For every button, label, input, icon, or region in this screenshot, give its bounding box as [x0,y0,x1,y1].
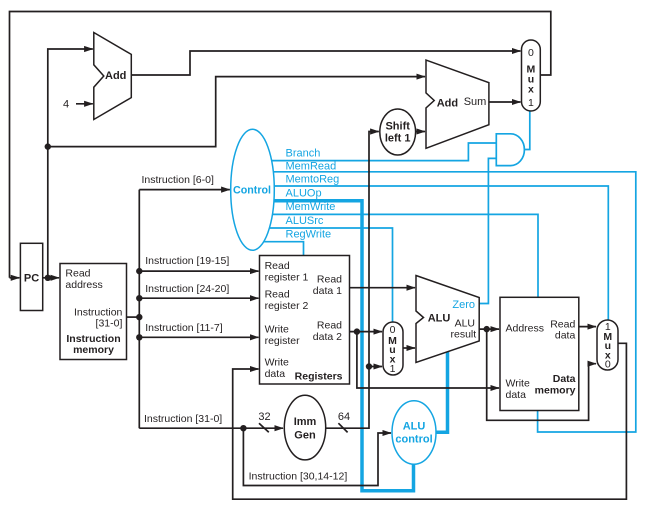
svg-text:Read: Read [317,274,342,286]
svg-text:Address: Address [506,322,545,334]
svg-text:x: x [528,84,534,96]
svg-text:register 2: register 2 [265,300,309,312]
svg-text:Read: Read [65,268,90,280]
svg-text:register: register [265,335,301,347]
svg-text:memory: memory [73,344,114,356]
svg-text:Shift: Shift [385,120,410,132]
svg-text:Add: Add [437,97,458,109]
svg-text:Imm: Imm [294,416,317,428]
svg-text:MemtoReg: MemtoReg [286,173,340,185]
svg-text:Control: Control [233,185,271,197]
svg-text:control: control [395,433,432,445]
svg-text:data: data [555,329,576,341]
svg-text:4: 4 [63,98,69,110]
svg-text:RegWrite: RegWrite [286,229,332,241]
svg-text:ALUSrc: ALUSrc [286,215,324,227]
svg-text:Write: Write [265,323,289,335]
svg-text:ALU: ALU [403,421,426,433]
svg-text:Instruction [11-7]: Instruction [11-7] [145,322,223,334]
svg-text:Gen: Gen [294,430,316,442]
svg-text:PC: PC [24,272,39,284]
svg-text:left 1: left 1 [385,133,411,145]
svg-text:0: 0 [605,359,611,371]
svg-text:data: data [506,389,527,401]
svg-text:Write: Write [506,378,530,390]
svg-text:Zero: Zero [452,299,475,311]
svg-text:Read: Read [265,289,290,301]
svg-text:Branch: Branch [286,147,321,159]
svg-text:MemRead: MemRead [286,160,337,172]
svg-text:data 1: data 1 [313,285,342,297]
svg-text:data: data [265,368,286,380]
svg-text:Instruction [30,14-12]: Instruction [30,14-12] [249,470,348,482]
svg-text:Sum: Sum [464,96,487,108]
svg-text:MemWrite: MemWrite [286,201,336,213]
svg-text:[31-0]: [31-0] [96,317,123,329]
svg-text:Registers: Registers [295,370,343,382]
svg-text:1: 1 [390,363,396,375]
svg-text:1: 1 [528,97,534,109]
svg-text:Instruction [6-0]: Instruction [6-0] [142,174,214,186]
svg-text:address: address [65,279,102,291]
svg-text:Write: Write [265,357,289,369]
svg-text:0: 0 [528,47,534,59]
svg-text:ALU: ALU [428,312,451,324]
svg-text:32: 32 [258,411,270,423]
svg-text:register 1: register 1 [265,272,309,284]
svg-text:data 2: data 2 [313,331,342,343]
svg-text:Read: Read [265,260,290,272]
svg-text:Data: Data [553,373,576,385]
svg-text:Read: Read [317,319,342,331]
svg-text:memory: memory [535,385,576,397]
svg-text:64: 64 [338,411,350,423]
svg-text:result: result [451,328,477,340]
svg-text:Instruction [31-0]: Instruction [31-0] [144,413,222,425]
svg-text:Add: Add [105,70,126,82]
svg-text:ALUOp: ALUOp [286,187,322,199]
svg-text:Instruction [24-20]: Instruction [24-20] [145,283,229,295]
svg-text:Instruction [19-15]: Instruction [19-15] [145,255,229,267]
